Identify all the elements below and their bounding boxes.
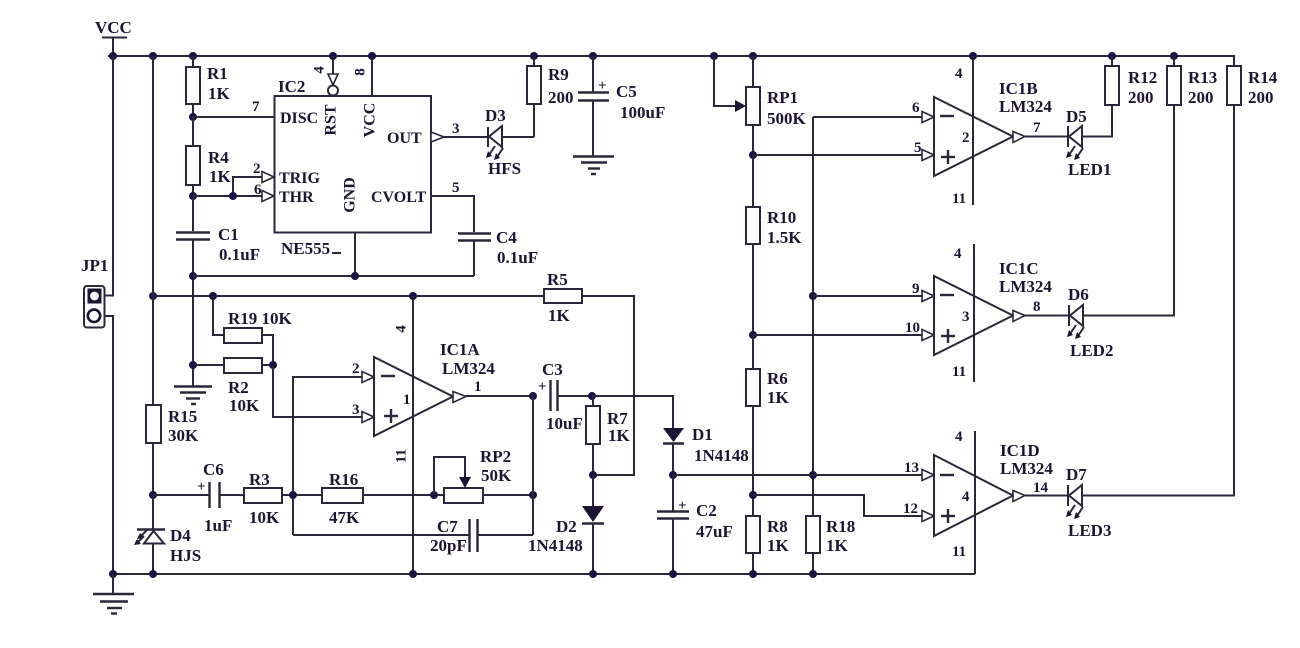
svg-text:LM324: LM324 xyxy=(999,97,1052,116)
svg-text:0.1uF: 0.1uF xyxy=(219,245,260,264)
svg-text:LED2: LED2 xyxy=(1070,341,1113,360)
svg-text:R1: R1 xyxy=(207,64,228,83)
svg-text:47uF: 47uF xyxy=(696,522,733,541)
svg-text:RP2: RP2 xyxy=(480,447,511,466)
svg-text:R8: R8 xyxy=(767,517,788,536)
resistor R5 xyxy=(544,270,582,325)
svg-text:C2: C2 xyxy=(696,501,717,520)
svg-text:R5: R5 xyxy=(547,270,568,289)
wire: to IC1C pin 10 xyxy=(753,320,934,341)
svg-text:VCC: VCC xyxy=(95,18,132,37)
resistor R1 xyxy=(186,56,231,117)
wire: CVOLT pin 5 to C4 xyxy=(431,180,474,232)
svg-text:0.1uF: 0.1uF xyxy=(497,248,538,267)
resistor R2 xyxy=(193,358,273,415)
diode D7 LED3 xyxy=(1066,465,1111,540)
capacitor C5 (polarized) xyxy=(578,56,665,156)
resistor R3 xyxy=(244,470,322,527)
resistor R8 xyxy=(746,516,790,574)
diode D5 LED1 xyxy=(1066,107,1111,179)
ground symbol (below C5) xyxy=(573,157,614,175)
svg-text:R15: R15 xyxy=(168,407,197,426)
svg-text:D6: D6 xyxy=(1068,285,1089,304)
svg-text:8: 8 xyxy=(1033,299,1041,315)
resistor R19 xyxy=(213,296,293,365)
svg-text:11: 11 xyxy=(952,544,966,560)
svg-text:CVOLT: CVOLT xyxy=(371,189,426,206)
svg-text:200: 200 xyxy=(1128,88,1154,107)
resistor R7 xyxy=(586,396,631,475)
diode D1 1N4148 xyxy=(663,425,749,475)
capacitor C4 xyxy=(458,228,538,276)
wire: detector column x=813 (pins 6/9/13, R18) xyxy=(812,117,814,516)
resistor R6 xyxy=(746,335,790,516)
node: R15/C6/D4 junction xyxy=(149,491,157,499)
svg-text:50K: 50K xyxy=(481,466,512,485)
svg-text:4: 4 xyxy=(955,66,963,82)
svg-text:DISC: DISC xyxy=(280,110,318,127)
resistor R9 xyxy=(527,56,574,137)
svg-text:R12: R12 xyxy=(1128,68,1157,87)
wire: x=533 column (out node to C7) xyxy=(532,396,534,535)
svg-text:4: 4 xyxy=(955,429,963,445)
svg-text:1K: 1K xyxy=(767,536,790,555)
svg-text:HFS: HFS xyxy=(488,159,521,178)
svg-text:IC1B: IC1B xyxy=(999,79,1038,98)
potentiometer RP2 50K xyxy=(434,447,533,503)
op-amp IC1C LM324 xyxy=(934,246,1052,380)
wire: JP1 pin 2 down to ground bus xyxy=(104,316,113,574)
svg-text:3: 3 xyxy=(452,121,460,137)
node: R4/C1 junction xyxy=(189,192,197,200)
svg-text:C4: C4 xyxy=(496,228,517,247)
svg-text:+: + xyxy=(678,498,687,514)
svg-text:C6: C6 xyxy=(203,460,224,479)
svg-text:RST: RST xyxy=(323,104,340,135)
svg-text:11: 11 xyxy=(393,449,409,463)
svg-text:LM324: LM324 xyxy=(999,277,1052,296)
node: R7/D2/feedback junction xyxy=(589,471,597,479)
svg-text:4: 4 xyxy=(962,489,970,505)
svg-text:2: 2 xyxy=(352,361,360,377)
junction dots on top bus xyxy=(109,52,1178,60)
svg-text:12: 12 xyxy=(903,501,918,517)
potentiometer RP1 500K xyxy=(714,56,807,155)
svg-text:11: 11 xyxy=(952,364,966,380)
svg-text:+: + xyxy=(538,379,547,395)
wire: IC1B output xyxy=(1025,136,1068,138)
wire: VCC column down to JP1 pin 1 xyxy=(104,56,113,296)
wire: R5 feedback to R7 bottom xyxy=(582,296,634,475)
svg-text:6: 6 xyxy=(912,100,920,116)
diode D4 HJS (IR photodiode) xyxy=(134,495,201,574)
node: D1/C2 junction xyxy=(669,471,677,479)
node: RP1/R10 junction xyxy=(749,151,757,159)
op-amp IC1D LM324 xyxy=(934,429,1053,560)
svg-text:D3: D3 xyxy=(485,106,506,125)
svg-text:200: 200 xyxy=(548,88,574,107)
svg-text:D1: D1 xyxy=(692,425,713,444)
svg-text:IC2: IC2 xyxy=(278,77,305,96)
svg-text:1K: 1K xyxy=(608,426,631,445)
wire: to IC1B pin 5 xyxy=(753,140,934,161)
wire: x=153 column (VCC to R15/D4) xyxy=(152,56,154,405)
svg-text:6: 6 xyxy=(254,182,262,198)
svg-text:5: 5 xyxy=(452,180,460,196)
wire: RST pin 4 with circle xyxy=(311,56,338,96)
svg-text:R2: R2 xyxy=(228,378,249,397)
svg-text:9: 9 xyxy=(912,281,920,297)
resistor R16 xyxy=(322,470,444,527)
svg-text:7: 7 xyxy=(252,99,260,115)
wire: D5 to R12 xyxy=(1082,105,1112,137)
wire: D6 to R13 xyxy=(1083,105,1174,316)
wire: DISC pin 7 xyxy=(193,99,274,117)
wire: IC1C power stub xyxy=(973,244,975,382)
node: D1 node / pin 13 junction xyxy=(809,471,817,479)
capacitor C6 (polarized) xyxy=(153,460,244,535)
wire: IC1D power column to ground bus xyxy=(974,431,976,574)
wire: IC1A power column x=413 xyxy=(412,296,414,574)
svg-text:14: 14 xyxy=(1033,480,1049,496)
node: RP2 wiper junction xyxy=(430,491,438,499)
svg-text:IC1D: IC1D xyxy=(1000,441,1040,460)
power symbol VCC xyxy=(95,18,132,56)
wire: 555 VCC pin 8 xyxy=(352,56,372,96)
resistor R18 xyxy=(806,516,855,574)
svg-text:LM324: LM324 xyxy=(442,359,495,378)
wire: to IC1A pin 3 xyxy=(273,365,374,423)
resistor R13 xyxy=(1167,56,1217,107)
svg-text:1K: 1K xyxy=(208,84,231,103)
svg-text:1N4148: 1N4148 xyxy=(528,536,583,555)
svg-text:3: 3 xyxy=(352,402,360,418)
svg-text:1uF: 1uF xyxy=(204,516,232,535)
node: pin 9 junction xyxy=(809,292,817,300)
svg-text:2: 2 xyxy=(253,161,261,177)
node: R2 left / ground column xyxy=(189,361,197,369)
svg-text:R19 10K: R19 10K xyxy=(228,309,293,328)
wire: to IC1D pin 12 xyxy=(753,495,934,522)
connector JP1 xyxy=(81,256,108,328)
wire: to IC1B pin 6 xyxy=(813,100,934,123)
svg-text:47K: 47K xyxy=(329,508,360,527)
wire: IC1C output xyxy=(1025,315,1069,317)
wire: D7 to R14 xyxy=(1082,105,1234,496)
svg-text:1.5K: 1.5K xyxy=(767,228,802,247)
svg-text:+: + xyxy=(598,78,607,94)
svg-text:R3: R3 xyxy=(249,470,270,489)
svg-text:R10: R10 xyxy=(767,208,796,227)
svg-text:D2: D2 xyxy=(556,517,577,536)
svg-text:D4: D4 xyxy=(170,526,191,545)
wire: IC1B power stub xyxy=(972,56,974,205)
node: C3/R7/D1 junction xyxy=(588,392,596,400)
svg-text:C1: C1 xyxy=(218,225,239,244)
ground symbol (below R2) xyxy=(174,387,212,405)
svg-text:D5: D5 xyxy=(1066,107,1087,126)
svg-text:4: 4 xyxy=(311,66,327,74)
wire: to IC1C pin 9 xyxy=(813,281,934,302)
node: R6/R8 junction xyxy=(749,491,757,499)
resistor R10 xyxy=(746,155,802,335)
svg-text:11: 11 xyxy=(952,191,966,207)
svg-text:JP1: JP1 xyxy=(81,256,108,275)
op-amp IC1B LM324 xyxy=(934,66,1052,207)
svg-text:HJS: HJS xyxy=(170,546,201,565)
node: R3/R16/pin2 junction xyxy=(289,491,297,499)
svg-text:IC1A: IC1A xyxy=(440,340,480,359)
svg-text:13: 13 xyxy=(904,460,919,476)
svg-text:D7: D7 xyxy=(1066,465,1087,484)
svg-text:R16: R16 xyxy=(329,470,358,489)
resistor R14 xyxy=(1227,66,1278,107)
svg-text:LM324: LM324 xyxy=(1000,459,1053,478)
wire: to IC1A pin 2 (from R3/R16 node) xyxy=(293,361,374,535)
svg-text:30K: 30K xyxy=(168,426,199,445)
svg-text:IC1C: IC1C xyxy=(999,259,1039,278)
svg-text:TRIG: TRIG xyxy=(279,170,320,187)
svg-text:3: 3 xyxy=(962,309,970,325)
svg-text:8: 8 xyxy=(352,68,368,76)
svg-text:R18: R18 xyxy=(826,517,855,536)
wire: OUT pin 3 xyxy=(431,121,488,142)
svg-text:7: 7 xyxy=(1033,120,1041,136)
op-amp U IC2 NE555 box xyxy=(275,77,432,258)
diode D2 1N4148 xyxy=(528,475,604,574)
svg-text:LED1: LED1 xyxy=(1068,160,1111,179)
svg-text:C7: C7 xyxy=(437,517,458,536)
wire: TRIG/THR connection xyxy=(193,161,274,202)
svg-text:1: 1 xyxy=(403,392,411,408)
svg-text:4: 4 xyxy=(393,325,409,333)
capacitor C1 xyxy=(176,196,260,386)
wire: mid VCC rail y=296 xyxy=(149,292,544,300)
svg-text:1N4148: 1N4148 xyxy=(694,446,749,465)
svg-text:OUT: OUT xyxy=(387,130,422,147)
svg-text:C3: C3 xyxy=(542,360,563,379)
diode D3 HFS (IR emitter LED) xyxy=(485,106,534,178)
capacitor C7 xyxy=(293,517,533,555)
resistor R15 xyxy=(146,405,199,495)
svg-text:R4: R4 xyxy=(208,148,229,167)
node: R19/R2 right junction xyxy=(269,361,277,369)
ground symbol (bottom left) xyxy=(93,574,134,614)
svg-text:1K: 1K xyxy=(826,536,849,555)
svg-text:R13: R13 xyxy=(1188,68,1217,87)
svg-text:R6: R6 xyxy=(767,369,788,388)
svg-text:1K: 1K xyxy=(209,167,232,186)
wire: IC1D output xyxy=(1025,495,1068,497)
svg-text:10: 10 xyxy=(905,320,920,336)
diode D6 LED2 xyxy=(1067,285,1113,360)
svg-text:LED3: LED3 xyxy=(1068,521,1111,540)
resistor R4 xyxy=(186,117,232,196)
capacitor C3 (polarized) xyxy=(538,360,592,433)
svg-text:RP1: RP1 xyxy=(767,88,798,107)
svg-text:20pF: 20pF xyxy=(430,536,467,555)
svg-text:5: 5 xyxy=(914,140,922,156)
node: RP2 right / IC1A out column xyxy=(529,491,537,499)
svg-text:4: 4 xyxy=(954,246,962,262)
svg-text:R14: R14 xyxy=(1248,68,1278,87)
svg-text:1: 1 xyxy=(474,379,482,395)
wire: 555 GND rail xyxy=(193,233,474,281)
svg-text:GND: GND xyxy=(342,177,359,213)
svg-text:500K: 500K xyxy=(767,109,807,128)
resistor R12 xyxy=(1105,56,1157,107)
svg-text:10K: 10K xyxy=(249,508,280,527)
svg-text:1K: 1K xyxy=(767,388,790,407)
wire: top VCC bus xyxy=(108,56,1234,66)
svg-text:C5: C5 xyxy=(616,82,637,101)
svg-text:R9: R9 xyxy=(548,65,569,84)
svg-text:10uF: 10uF xyxy=(546,414,583,433)
node: R10/R6 junction xyxy=(749,331,757,339)
svg-text:NE555: NE555 xyxy=(281,239,330,258)
svg-text:200: 200 xyxy=(1248,88,1274,107)
svg-text:VCC: VCC xyxy=(362,103,379,138)
wire: bottom ground bus xyxy=(109,570,975,578)
wire: D1 branch from C3/R7 node xyxy=(592,396,673,428)
node: C1/555 GND rail junction xyxy=(189,272,197,280)
svg-text:200: 200 xyxy=(1188,88,1214,107)
svg-text:10K: 10K xyxy=(229,396,260,415)
svg-text:2: 2 xyxy=(962,130,970,146)
capacitor C2 (polarized) xyxy=(657,475,733,574)
node: R1/R4 junction (555 DISC) xyxy=(189,113,197,121)
wire: IC1A output xyxy=(466,392,537,400)
svg-text:100uF: 100uF xyxy=(620,103,665,122)
svg-text:+: + xyxy=(197,479,206,495)
wire: D1 node to IC1D pin 13 xyxy=(673,460,934,481)
svg-text:THR: THR xyxy=(279,189,314,206)
op-amp IC1A LM324 xyxy=(374,325,495,463)
svg-text:1K: 1K xyxy=(548,306,571,325)
